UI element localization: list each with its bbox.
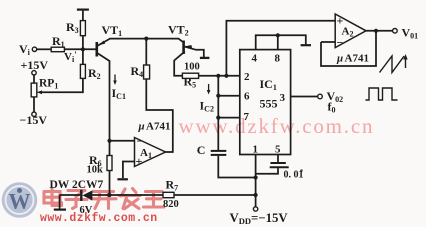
svg-text:DW 2CW7: DW 2CW7 — [50, 179, 104, 191]
svg-text:−15V: −15V — [20, 113, 48, 127]
svg-text:C: C — [197, 143, 206, 157]
svg-text:www.dzkfw.com.cn: www.dzkfw.com.cn — [40, 212, 158, 225]
svg-text:A741: A741 — [146, 121, 170, 133]
svg-text:+15V: +15V — [21, 58, 49, 72]
svg-text:μ: μ — [138, 121, 145, 133]
svg-text:3: 3 — [280, 92, 286, 104]
svg-text:6V: 6V — [80, 205, 93, 216]
svg-text:−: − — [337, 36, 344, 50]
svg-text:8: 8 — [275, 53, 281, 65]
svg-text:5: 5 — [275, 144, 281, 156]
svg-text:μ: μ — [336, 53, 343, 65]
svg-text:www.dzkfw.com.cn: www.dzkfw.com.cn — [179, 114, 375, 138]
svg-text:A741: A741 — [345, 53, 369, 65]
svg-text:0. 01: 0. 01 — [284, 170, 304, 181]
svg-text:820: 820 — [163, 199, 179, 210]
svg-text:555: 555 — [260, 97, 278, 111]
svg-text:2: 2 — [244, 71, 250, 83]
svg-text:VDD=−15V: VDD=−15V — [230, 211, 289, 226]
svg-text:7: 7 — [244, 111, 250, 123]
svg-text:100: 100 — [184, 62, 200, 73]
svg-text:6: 6 — [244, 91, 250, 103]
svg-text:−: − — [137, 134, 144, 148]
svg-text:4: 4 — [252, 53, 258, 65]
svg-text:+: + — [136, 154, 143, 168]
svg-text:10k: 10k — [87, 165, 104, 176]
svg-text:1: 1 — [253, 144, 259, 156]
svg-text:+: + — [337, 14, 344, 28]
